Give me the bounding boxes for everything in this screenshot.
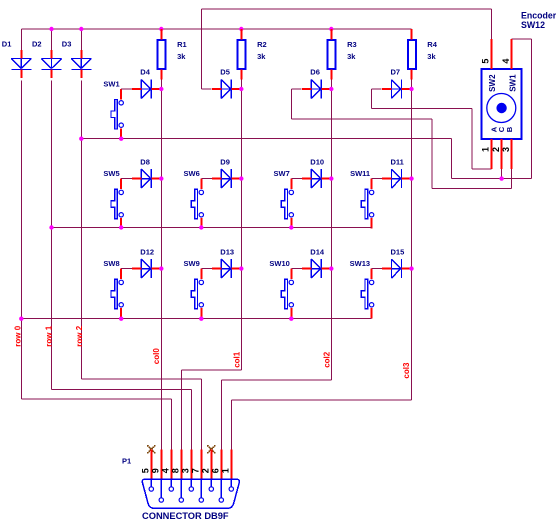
svg-text:7: 7 (191, 468, 201, 473)
wire SW1 to D4 (121, 88, 132, 90)
label R2 designator (257, 40, 267, 49)
svg-text:5: 5 (141, 468, 151, 473)
diode D8 (132, 157, 162, 188)
wire row1 drop to pin3 (190, 389, 192, 449)
switch SW8 (103, 259, 123, 319)
diode D6 (302, 68, 332, 99)
svg-text:6: 6 (211, 468, 221, 473)
svg-text:D8: D8 (140, 157, 150, 166)
wire encoder A horizontal (472, 168, 492, 170)
diode D14 (302, 247, 332, 278)
wire SW7 to D10 (291, 178, 302, 180)
svg-text:8: 8 (171, 468, 181, 473)
wire col1 drop to pin8 (180, 370, 182, 449)
svg-text:SW13: SW13 (350, 259, 370, 268)
svg-text:SW6: SW6 (184, 169, 200, 178)
wire SW10 to D14 (291, 268, 302, 270)
svg-text:D14: D14 (310, 247, 325, 256)
wire encoder B riser (511, 169, 513, 189)
wire row2 horizontal to P1 pin7 (81, 378, 201, 380)
label P1 designator (122, 457, 131, 466)
svg-text:col3: col3 (402, 362, 411, 379)
svg-text:row 0: row 0 (13, 325, 22, 346)
resistor R1 (158, 29, 166, 89)
svg-text:row 1: row 1 (44, 325, 53, 346)
svg-text:3: 3 (181, 468, 191, 473)
junction row1 / col0 (159, 87, 163, 91)
wire row0 drop to pin4 (170, 399, 172, 450)
junction row1 / col1 (239, 87, 243, 91)
junction row3 bus / SW10 (289, 317, 293, 321)
svg-text:SW1: SW1 (103, 79, 119, 88)
switch SW5 (103, 169, 123, 229)
junction row3 / D14 (329, 266, 333, 270)
wire encoder pin4 riser (530, 39, 532, 179)
svg-text:3k: 3k (177, 52, 186, 61)
svg-text:D6: D6 (310, 68, 320, 77)
svg-text:D13: D13 (220, 247, 234, 256)
svg-text:D1: D1 (2, 40, 12, 49)
wire D7 to encoder A horizontal (372, 108, 472, 110)
label R3 designator (347, 40, 357, 49)
svg-text:D12: D12 (140, 247, 154, 256)
wire col2 drop to pin6 (220, 380, 222, 449)
junction top bus / R3 (329, 27, 333, 31)
junction row3 / D15 (409, 266, 413, 270)
label connector type (142, 511, 229, 521)
diode D4 (132, 68, 162, 99)
wire D3 anode from bus (80, 29, 82, 50)
junction row2 / D8 (159, 176, 163, 180)
encoder pin 3 (B) (501, 139, 511, 169)
wire row2 vertical (80, 81, 82, 379)
connector P1 pin 4 (161, 449, 172, 487)
diode D1 (2, 40, 32, 78)
switch SW7 (274, 169, 294, 229)
svg-text:R1: R1 (177, 40, 187, 49)
svg-text:row 2: row 2 (75, 325, 84, 346)
wire col3 drop to pin1 (230, 400, 232, 449)
svg-text:R3: R3 (347, 40, 357, 49)
svg-text:5: 5 (481, 59, 491, 64)
wire row3 bottom bus (21, 318, 371, 320)
wire SW6 to D9 (201, 178, 212, 180)
svg-text:SW2: SW2 (488, 74, 497, 92)
svg-text:SW9: SW9 (184, 259, 200, 268)
svg-text:P1: P1 (122, 457, 131, 466)
svg-text:D4: D4 (140, 68, 150, 77)
no-connect X pin 2 (207, 445, 216, 454)
junction row3 / D13 (239, 266, 243, 270)
encoder pin 4 (501, 39, 511, 69)
encoder pin 1 (A) (481, 139, 492, 169)
wire col0 vertical (160, 89, 162, 449)
resistor R4 (408, 29, 416, 89)
svg-text:D5: D5 (220, 68, 230, 77)
svg-text:2: 2 (491, 147, 501, 152)
svg-text:3k: 3k (347, 52, 356, 61)
junction row3 bus / D1 column (19, 317, 23, 321)
wire col2 vertical (330, 89, 332, 380)
encoder SW12 label (521, 10, 556, 30)
diode D9 (212, 157, 242, 188)
svg-text:1: 1 (481, 147, 491, 152)
connector P1 pin 5 (141, 449, 152, 487)
connector P1 shell (142, 479, 239, 508)
svg-text:D11: D11 (391, 157, 404, 166)
junction top bus / R1 (159, 27, 163, 31)
junction encoder C junction (499, 176, 503, 180)
svg-text:SW1: SW1 (509, 74, 518, 92)
svg-text:SW11: SW11 (350, 169, 370, 178)
wire SW5 to D8 (121, 178, 132, 180)
svg-text:col0: col0 (152, 348, 161, 365)
svg-text:CONNECTOR DB9F: CONNECTOR DB9F (142, 511, 229, 521)
wire SW13 to D15 (372, 268, 383, 270)
wire row1 vertical (51, 81, 53, 390)
svg-text:D15: D15 (391, 247, 405, 256)
svg-text:R4: R4 (427, 40, 437, 49)
label R2 value (257, 52, 266, 61)
svg-text:SW5: SW5 (103, 169, 119, 178)
svg-text:B: B (505, 126, 514, 132)
svg-text:D9: D9 (220, 157, 230, 166)
wire row0 vertical (20, 81, 22, 399)
wire D5 anode stub (201, 88, 211, 90)
wire SW8 to D12 (121, 268, 132, 270)
node row0 label (13, 325, 22, 346)
switch SW9 (184, 259, 204, 319)
switch SW1 (103, 79, 123, 139)
wire encoder B horizontal (432, 188, 512, 190)
diode D5 (212, 68, 242, 99)
no-connect X pin 5 (147, 445, 156, 454)
diode D13 (212, 247, 242, 278)
junction row2 bus / SW7 (289, 225, 293, 229)
encoder pin 2 (C) (491, 139, 501, 169)
junction top bus / D2 (49, 27, 53, 31)
svg-text:D10: D10 (310, 157, 324, 166)
junction row2 bus / SW6 (199, 225, 203, 229)
wire col2 horizontal to P1 pin6 (221, 379, 331, 381)
switch SW11 (350, 169, 374, 229)
diode D7 (382, 68, 412, 99)
wire encoder pin4 top link (512, 38, 532, 40)
junction row3 bus / SW8 (119, 317, 123, 321)
label R3 value (347, 52, 356, 61)
svg-text:D3: D3 (62, 40, 72, 49)
node row2 label (75, 325, 84, 346)
node row1 label (44, 325, 53, 346)
svg-text:SW7: SW7 (274, 169, 290, 178)
switch SW6 (184, 169, 204, 229)
svg-text:R2: R2 (257, 40, 267, 49)
wire D6 to encoder B horizontal (292, 118, 432, 120)
wire D1 anode from bus (20, 29, 22, 50)
wire top bus to encoder pin5 (201, 8, 491, 10)
junction top bus / R2 (239, 27, 243, 31)
junction row1 bus / D3 column (79, 137, 83, 141)
diode D3 (62, 40, 92, 78)
junction top bus / D3 (79, 27, 83, 31)
label R4 value (427, 52, 436, 61)
wire D5 anode feed vertical (200, 9, 202, 89)
wire col1 vertical (240, 89, 242, 370)
junction row2 / D9 (239, 176, 243, 180)
diode D10 (302, 157, 332, 188)
junction row1 / col2 (329, 87, 333, 91)
wire D2 anode from bus (51, 29, 53, 50)
svg-text:SW8: SW8 (103, 259, 119, 268)
label R4 designator (427, 40, 437, 49)
junction row2 / D11 (409, 176, 413, 180)
wire row1 horizontal to P1 pin3 (52, 388, 192, 390)
svg-text:D7: D7 (391, 68, 401, 77)
switch SW10 (269, 259, 293, 319)
wire encoder C horizontal (451, 178, 531, 180)
wire row2 drop to pin7 (200, 379, 202, 450)
junction row2 bus / D2 column (49, 225, 53, 229)
wire encoder pin5 drop (491, 9, 493, 39)
svg-text:SW10: SW10 (269, 259, 289, 268)
wire SW11 to D11 (372, 178, 383, 180)
diode D11 (382, 157, 412, 188)
svg-text:3k: 3k (427, 52, 436, 61)
junction row2 bus / SW5 (119, 225, 123, 229)
wire col3 horizontal to P1 pin1 (231, 399, 411, 401)
resistor R3 (328, 29, 336, 89)
connector P1 pin 1 (221, 449, 232, 487)
junction row1 / col3 (409, 87, 413, 91)
connector P1 pin 8 (171, 449, 182, 498)
svg-text:9: 9 (151, 468, 161, 473)
junction row3 bus / SW9 (199, 317, 203, 321)
encoder SW12 (482, 69, 522, 139)
connector P1 pin 3 (181, 449, 192, 487)
label R1 designator (177, 40, 187, 49)
connector P1 pin 2 (201, 449, 212, 487)
wire SW9 to D13 (201, 268, 212, 270)
svg-text:3: 3 (501, 147, 511, 152)
svg-text:2: 2 (201, 468, 211, 473)
wire D6 anode stub (292, 88, 302, 90)
junction row2 / D10 (329, 176, 333, 180)
junction row1 bus / SW1 (119, 137, 123, 141)
svg-text:col1: col1 (233, 351, 242, 368)
junction row3 / D12 (159, 266, 163, 270)
node col3 label (402, 362, 411, 379)
wire encoder B drop (431, 119, 433, 188)
svg-text:SW12: SW12 (521, 20, 545, 30)
wire encoder pin2 stub (501, 169, 503, 179)
node col2 label (322, 351, 331, 368)
wire top bus row nets (21, 28, 411, 30)
connector P1 pin 9 (151, 449, 162, 498)
resistor R2 (238, 29, 246, 89)
svg-text:4: 4 (161, 468, 171, 473)
connector P1 pin 7 (191, 449, 202, 498)
node col0 label (152, 348, 161, 365)
diode D2 (32, 40, 62, 78)
wire row1 bottom bus (81, 138, 451, 140)
wire D6 anode vertical (291, 89, 293, 119)
svg-text:col2: col2 (322, 351, 331, 368)
wire row0 horizontal to P1 pin4 (21, 398, 171, 400)
wire col3 vertical (411, 89, 413, 400)
wire row1 bus drop right (450, 139, 452, 179)
node col1 label (233, 351, 242, 368)
wire encoder A drop (471, 109, 473, 169)
svg-text:3k: 3k (257, 52, 266, 61)
diode D12 (132, 247, 162, 278)
wire D7 anode stub (372, 88, 382, 90)
svg-text:D2: D2 (32, 40, 42, 49)
svg-text:Encoder: Encoder (521, 10, 556, 20)
svg-text:1: 1 (221, 468, 231, 473)
wire row2 bottom bus (52, 227, 372, 229)
label R1 value (177, 52, 186, 61)
encoder pin 5 (481, 39, 492, 69)
diode D15 (382, 247, 412, 278)
switch SW13 (350, 259, 374, 319)
wire D7 anode vertical (371, 89, 373, 109)
wire col1 horizontal to P1 pin8 (181, 369, 241, 371)
svg-text:4: 4 (501, 59, 511, 64)
connector P1 pin 6 (211, 449, 222, 498)
